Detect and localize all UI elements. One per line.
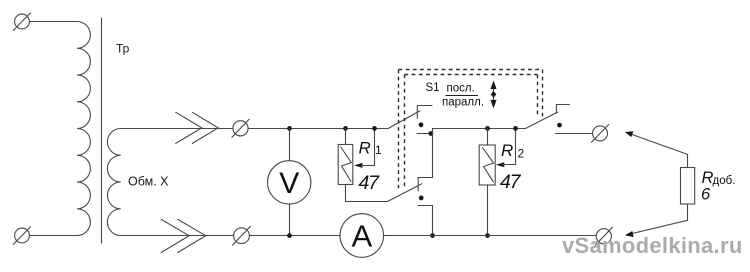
- S1 travel arrow: [490, 81, 496, 109]
- node: R2 bottom junction: [485, 233, 490, 238]
- S1 pole A lower contact wire: [417, 133, 431, 135]
- svg-text:паралл.: паралл.: [442, 97, 484, 109]
- transformer core: [101, 18, 103, 243]
- voltmeter PV1: [268, 161, 311, 204]
- svg-text:V: V: [279, 167, 299, 200]
- S1 pole A lower contact dot: [419, 122, 424, 127]
- connector circle top: [232, 119, 249, 137]
- svg-text:Обм. Х: Обм. Х: [128, 175, 169, 189]
- top wire to switch pivot: [248, 128, 388, 130]
- node: voltmeter top junction: [287, 126, 292, 131]
- node: R2 top junction: [485, 126, 490, 131]
- wire to voltmeter: [289, 129, 291, 161]
- svg-text:посл.: посл.: [447, 83, 475, 95]
- wire R2 bottom: [487, 185, 489, 236]
- svg-text:47: 47: [500, 171, 522, 193]
- svg-text:доб.: доб.: [713, 175, 736, 187]
- S1 pole B lower contact dot: [419, 196, 424, 201]
- svg-text:vSamodelkina.ru: vSamodelkina.ru: [562, 233, 743, 258]
- R2 wiper arrow: [496, 129, 516, 168]
- S1 pole B upper contact: [418, 178, 432, 192]
- wire to R2: [487, 129, 489, 146]
- terminal X3 (output top): [592, 125, 609, 143]
- svg-text:S1: S1: [426, 82, 440, 94]
- S1 pole A upper contact: [417, 106, 432, 119]
- svg-text:1: 1: [375, 143, 382, 157]
- resistor Rdob body: [681, 168, 695, 205]
- wire arrow to Rdob top: [687, 154, 689, 167]
- wire secondary bottom to connector: [145, 235, 234, 237]
- wire: corner to R2 run: [433, 129, 526, 178]
- transformer Tr primary winding: [70, 22, 90, 236]
- wire secondary top to connector: [145, 128, 233, 130]
- bottom wire ammeter to X4: [384, 235, 597, 237]
- svg-text:6: 6: [701, 186, 711, 204]
- node: pole A to main wire: [429, 131, 434, 136]
- fraction bar: [446, 95, 478, 97]
- switch S1 pole C lever: [525, 112, 557, 128]
- S1 linkage dashed box: [399, 70, 543, 192]
- svg-text:R: R: [359, 139, 371, 158]
- connector circle bottom: [233, 226, 251, 245]
- arrowhead to X4: [625, 231, 634, 237]
- wire X1 to primary: [29, 21, 70, 23]
- S1 pole C upper contact: [556, 105, 569, 114]
- node: pole B to bottom wire: [430, 233, 435, 238]
- svg-text:Тр: Тр: [116, 42, 130, 56]
- resistor R2 body: [479, 145, 495, 185]
- S1 pole C lower contact dot: [557, 123, 562, 128]
- node: R2 wiper junction: [513, 126, 518, 131]
- node: R1 wiper junction: [372, 126, 377, 131]
- wire R1 bottom: [346, 185, 388, 202]
- svg-text:47: 47: [359, 172, 381, 194]
- svg-text:A: A: [351, 219, 372, 254]
- wire to R1: [345, 129, 347, 145]
- terminal X2 (bottom left): [13, 227, 30, 245]
- R1 wiper arrow: [354, 129, 375, 168]
- node: R1 top junction: [343, 126, 348, 131]
- arrow from Rdob to X3: [625, 131, 688, 154]
- terminal X1 (top left): [13, 13, 30, 31]
- svg-text:R: R: [501, 141, 513, 160]
- bottom wire to ammeter: [249, 235, 340, 237]
- transformer secondary winding Obm.X: [107, 129, 147, 236]
- ammeter PA1: [340, 214, 384, 258]
- wire Rdob bottom: [629, 204, 688, 234]
- S1 pole C contact wire to output: [555, 133, 592, 135]
- switch S1 pole A lever: [388, 111, 419, 128]
- S1 pole B lever: [388, 184, 422, 202]
- resistor R1 body: [338, 145, 353, 185]
- wire voltmeter to bottom: [289, 204, 291, 235]
- wire primary to X2: [30, 235, 71, 237]
- S1 pole B lower contact wire: [418, 206, 433, 236]
- chevron arrows bottom wire: [161, 219, 206, 252]
- svg-text:2: 2: [518, 147, 525, 161]
- chevron arrows top wire: [176, 112, 219, 143]
- node: voltmeter bottom junction: [287, 233, 292, 238]
- terminal X4 (output bottom): [595, 227, 612, 245]
